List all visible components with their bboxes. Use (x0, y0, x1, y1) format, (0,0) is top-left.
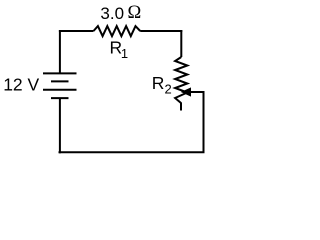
battery V1 long plate 2 (43, 89, 77, 91)
wire: top-left horizontal segment (59, 30, 94, 32)
wire: left vertical lower (battery minus to bottom) (59, 99, 61, 154)
svg-text:R1: R1 (110, 38, 129, 62)
svg-text:R2: R2 (152, 73, 172, 97)
wire: wiper tail to right drop (189, 92, 204, 152)
resistor R2 zigzag (rheostat body) (175, 57, 187, 103)
resistor R2 bottom terminal stub (180, 103, 182, 111)
svg-text:3.0 Ω: 3.0 Ω (100, 3, 141, 23)
wire: left vertical upper (top to battery plus) (59, 30, 61, 73)
wiper arrow head of R2 (181, 87, 191, 96)
svg-text:12 V: 12 V (3, 75, 39, 95)
wire: top-right horizontal segment (140, 30, 182, 32)
battery V1 short plate 2 (51, 97, 69, 99)
wire: bottom horizontal (59, 151, 205, 153)
wire: right vertical upper segment (180, 30, 182, 57)
battery V1 long plate 1 (43, 72, 77, 74)
resistor R1 zigzag (94, 26, 141, 36)
battery V1 short plate 1 (51, 80, 69, 82)
